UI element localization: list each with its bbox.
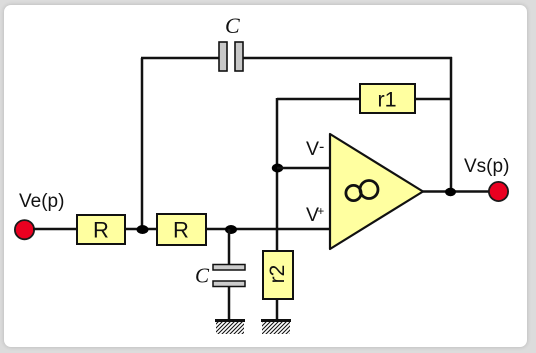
label C (bottom capacitor) <box>195 264 210 288</box>
resistor R (first) <box>77 215 125 244</box>
wire top horizontal right from capacitor C <box>243 57 452 60</box>
resistor r1 <box>360 84 415 113</box>
terminal Ve(p) red node <box>15 220 34 239</box>
wire Ve to resistor R1 <box>33 228 77 231</box>
wire between R resistors <box>125 228 157 231</box>
label V+ <box>306 204 325 226</box>
svg-text:r1: r1 <box>377 88 396 112</box>
svg-text:-: - <box>319 139 324 156</box>
wire node B down to capacitor C (bottom) <box>228 229 231 264</box>
wire r1 left segment <box>277 98 360 101</box>
node B junction dot <box>225 225 237 234</box>
resistor R (second) <box>157 214 206 245</box>
svg-text:Ve(p): Ve(p) <box>19 191 64 212</box>
node output junction dot <box>445 188 456 196</box>
wire top horizontal left to capacitor C <box>141 57 219 60</box>
label Vs(p) <box>464 156 509 177</box>
svg-text:r2: r2 <box>266 265 289 284</box>
svg-text:V: V <box>306 138 319 160</box>
wire V- input to op-amp <box>277 167 331 170</box>
svg-text:+: + <box>318 206 325 218</box>
capacitor C (top, feedback) <box>219 42 243 71</box>
wire feedback vertical (r1 down through V- node to r2) <box>276 98 279 251</box>
wire R2 to op-amp V+ <box>206 228 331 231</box>
label Ve(p) <box>19 191 64 212</box>
svg-text:C: C <box>195 264 210 288</box>
wire capacitor C (bottom) to ground <box>228 286 231 320</box>
node A junction dot <box>137 225 149 234</box>
wire op-amp output <box>423 190 489 193</box>
svg-text:Vs(p): Vs(p) <box>464 156 509 177</box>
resistor r2 <box>263 251 293 299</box>
label V- <box>306 138 324 160</box>
svg-text:R: R <box>173 218 189 243</box>
wire r1 right segment <box>415 98 451 101</box>
ground (below bottom capacitor) <box>215 320 245 334</box>
capacitor C (bottom) <box>213 265 245 287</box>
ground (below r2) <box>261 320 291 334</box>
node V- junction dot <box>272 164 283 173</box>
svg-text:C: C <box>225 13 240 38</box>
svg-text:R: R <box>93 218 109 243</box>
op-amp infinity gain symbol <box>346 181 378 201</box>
op-amp U1 triangle <box>330 134 423 249</box>
label C (top capacitor) <box>225 13 240 38</box>
wire right vertical down to output node <box>450 57 453 192</box>
wire r2 to ground <box>276 299 279 320</box>
wire top-left vertical (node A up to capacitor C level) <box>141 58 144 230</box>
terminal Vs(p) red node <box>489 182 508 201</box>
